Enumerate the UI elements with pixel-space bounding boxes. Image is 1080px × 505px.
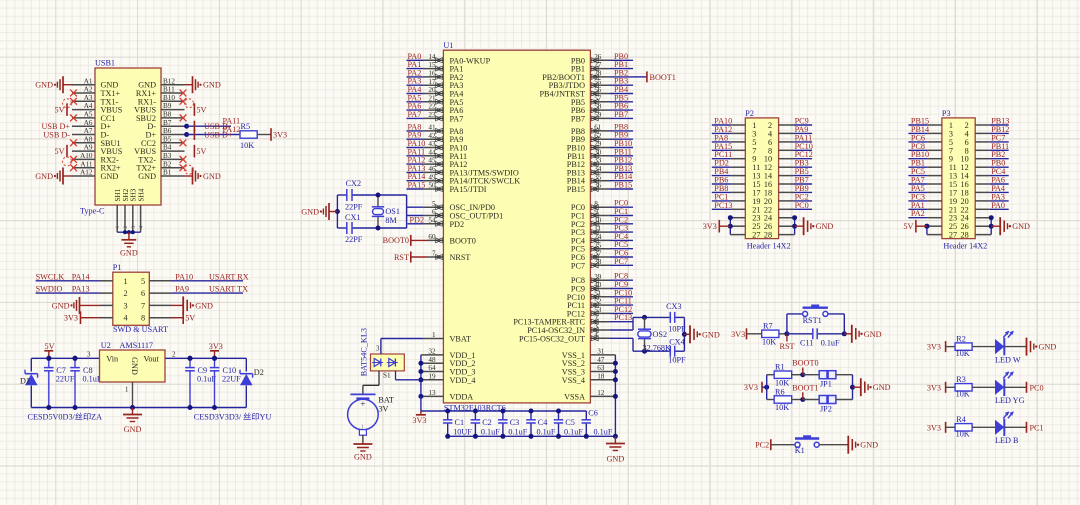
svg-text:GND: GND [138, 172, 156, 181]
svg-text:B11: B11 [163, 86, 175, 94]
svg-text:VDDA: VDDA [450, 392, 474, 401]
svg-text:PA12: PA12 [223, 125, 241, 134]
svg-text:A3: A3 [84, 94, 93, 102]
svg-text:R5: R5 [241, 122, 251, 131]
svg-text:RST: RST [780, 342, 795, 351]
svg-text:45: 45 [428, 157, 436, 165]
svg-text:61: 61 [594, 124, 602, 132]
svg-text:CESD5V0D3/丝印ZA: CESD5V0D3/丝印ZA [28, 412, 103, 422]
svg-text:A1: A1 [84, 77, 93, 85]
svg-text:SWDIO: SWDIO [36, 285, 63, 294]
svg-text:A10: A10 [80, 152, 93, 160]
svg-text:AMS1117: AMS1117 [120, 341, 154, 350]
svg-text:JP2: JP2 [820, 404, 832, 413]
svg-text:C2: C2 [482, 418, 492, 427]
svg-text:0.1uF: 0.1uF [197, 374, 216, 383]
svg-text:3: 3 [131, 226, 137, 229]
svg-text:R7: R7 [763, 322, 773, 331]
svg-text:4: 4 [594, 331, 598, 339]
svg-text:63: 63 [597, 364, 605, 372]
svg-text:B10: B10 [163, 94, 175, 102]
svg-text:R6: R6 [775, 387, 785, 396]
svg-text:0.1uF: 0.1uF [564, 427, 583, 436]
svg-text:3V3: 3V3 [731, 330, 745, 339]
svg-text:PD2: PD2 [450, 220, 465, 229]
svg-text:24: 24 [594, 233, 602, 241]
svg-text:0.1uF: 0.1uF [821, 338, 840, 347]
svg-text:46: 46 [428, 165, 436, 173]
svg-text:U2: U2 [101, 341, 111, 350]
svg-text:A12: A12 [80, 169, 93, 177]
svg-text:0.1uF: 0.1uF [508, 427, 527, 436]
svg-text:BOOT1: BOOT1 [650, 73, 676, 82]
svg-text:PC7: PC7 [614, 257, 628, 266]
svg-text:5V: 5V [903, 222, 913, 231]
svg-text:21: 21 [428, 94, 436, 102]
svg-text:10K: 10K [956, 430, 970, 439]
svg-text:BOOT0: BOOT0 [383, 236, 409, 245]
svg-text:10: 10 [594, 216, 602, 224]
svg-text:VBAT: VBAT [450, 335, 471, 344]
svg-text:C6: C6 [588, 409, 598, 418]
svg-text:USB1: USB1 [95, 59, 115, 68]
svg-text:USART TX: USART TX [209, 285, 248, 294]
svg-text:BOOT1: BOOT1 [792, 383, 818, 392]
svg-text:22UF: 22UF [56, 374, 75, 383]
svg-text:27: 27 [949, 231, 957, 240]
svg-text:32: 32 [428, 348, 436, 356]
svg-text:PA15: PA15 [408, 181, 426, 190]
svg-text:OS2: OS2 [653, 330, 668, 339]
svg-text:15: 15 [428, 61, 436, 69]
svg-text:GND: GND [864, 330, 882, 339]
svg-text:59: 59 [594, 111, 602, 119]
svg-text:28: 28 [764, 231, 772, 240]
svg-text:27: 27 [594, 61, 602, 69]
svg-text:56: 56 [594, 86, 602, 94]
svg-text:3V: 3V [378, 405, 388, 414]
svg-text:A4: A4 [84, 102, 93, 110]
svg-text:2: 2 [124, 289, 128, 298]
svg-text:39: 39 [594, 273, 602, 281]
svg-text:3V3: 3V3 [703, 222, 717, 231]
svg-text:2: 2 [123, 226, 129, 229]
svg-text:16: 16 [428, 70, 436, 78]
svg-text:PA13: PA13 [72, 285, 90, 294]
svg-text:8: 8 [594, 200, 598, 208]
svg-text:6: 6 [141, 289, 145, 298]
svg-text:GND: GND [124, 425, 142, 434]
svg-text:GND: GND [130, 357, 139, 375]
svg-text:A5: A5 [84, 111, 93, 119]
svg-text:49: 49 [428, 173, 436, 181]
svg-text:1: 1 [115, 226, 121, 229]
svg-text:JP1: JP1 [820, 380, 832, 389]
svg-text:GND: GND [816, 222, 834, 231]
svg-text:PC13: PC13 [714, 201, 732, 210]
svg-text:5V: 5V [196, 147, 206, 156]
svg-text:C11: C11 [800, 338, 813, 347]
svg-text:7: 7 [141, 301, 145, 310]
svg-text:53: 53 [594, 306, 602, 314]
svg-text:34: 34 [594, 165, 602, 173]
svg-text:Vin: Vin [106, 355, 118, 364]
svg-text:7: 7 [432, 250, 436, 258]
svg-text:R1: R1 [775, 363, 785, 372]
svg-text:32.768K: 32.768K [643, 344, 672, 353]
svg-text:22: 22 [428, 103, 436, 111]
svg-text:3V3: 3V3 [209, 342, 223, 351]
svg-text:5V: 5V [54, 147, 64, 156]
svg-text:62: 62 [594, 132, 602, 140]
svg-text:GND: GND [607, 455, 625, 464]
svg-text:1: 1 [125, 386, 129, 394]
svg-text:23: 23 [428, 111, 436, 119]
svg-text:PA15/JTDI: PA15/JTDI [450, 185, 487, 194]
svg-text:PB15: PB15 [567, 185, 585, 194]
svg-text:PC0: PC0 [1030, 383, 1044, 392]
svg-text:SWCLK: SWCLK [36, 272, 65, 281]
svg-text:U1: U1 [443, 41, 453, 50]
svg-text:2: 2 [172, 350, 176, 358]
svg-text:B7: B7 [163, 119, 172, 127]
svg-text:60: 60 [428, 233, 436, 241]
svg-text:GND: GND [35, 172, 53, 181]
svg-text:A6: A6 [84, 119, 93, 127]
svg-text:PC15-OSC32_OUT: PC15-OSC32_OUT [519, 334, 585, 343]
svg-text:SH1: SH1 [114, 188, 122, 201]
svg-text:GND: GND [1012, 222, 1030, 231]
svg-text:17: 17 [428, 78, 436, 86]
svg-text:A11: A11 [80, 160, 93, 168]
svg-text:P3: P3 [942, 109, 951, 118]
svg-text:37: 37 [594, 250, 602, 258]
svg-text:B2: B2 [163, 160, 172, 168]
svg-text:D1: D1 [20, 377, 30, 386]
svg-text:8M: 8M [385, 216, 397, 225]
svg-text:GND: GND [35, 81, 53, 90]
svg-text:22PF: 22PF [345, 235, 363, 244]
svg-text:D2: D2 [254, 368, 264, 377]
svg-text:GND: GND [873, 383, 891, 392]
svg-text:LED YG: LED YG [995, 396, 1025, 405]
svg-text:5V: 5V [45, 342, 55, 351]
svg-text:4: 4 [139, 226, 145, 229]
svg-text:SH3: SH3 [130, 188, 138, 201]
svg-text:1: 1 [432, 331, 436, 339]
svg-text:35: 35 [594, 173, 602, 181]
svg-text:25: 25 [594, 241, 602, 249]
svg-text:20: 20 [428, 86, 436, 94]
svg-text:28: 28 [594, 70, 602, 78]
svg-text:3: 3 [594, 323, 598, 331]
svg-text:0.1uF: 0.1uF [537, 427, 556, 436]
svg-text:5V: 5V [54, 106, 64, 115]
svg-text:PB15: PB15 [614, 181, 632, 190]
svg-text:SWD & USART: SWD & USART [113, 325, 168, 334]
svg-text:PC0: PC0 [795, 201, 809, 210]
svg-text:PC1: PC1 [1030, 423, 1044, 432]
svg-text:51: 51 [594, 289, 602, 297]
svg-text:29: 29 [594, 140, 602, 148]
svg-text:3V3: 3V3 [927, 343, 941, 352]
svg-text:VSS_4: VSS_4 [562, 376, 585, 385]
svg-text:3V3: 3V3 [64, 314, 78, 323]
svg-text:GND: GND [203, 172, 221, 181]
svg-text:SH2: SH2 [122, 188, 130, 201]
svg-text:GND: GND [354, 453, 372, 462]
svg-text:B5: B5 [163, 135, 172, 143]
svg-text:3V3: 3V3 [744, 383, 758, 392]
svg-text:19: 19 [428, 372, 436, 380]
svg-text:58: 58 [594, 103, 602, 111]
svg-text:36: 36 [594, 182, 602, 190]
svg-text:R2: R2 [956, 334, 966, 343]
svg-text:R4: R4 [956, 415, 966, 424]
svg-text:12: 12 [597, 389, 605, 397]
svg-text:CESD3V3D3/ 丝印YU: CESD3V3D3/ 丝印YU [194, 412, 272, 422]
svg-text:Type-C: Type-C [80, 207, 105, 216]
svg-text:CX2: CX2 [346, 179, 361, 188]
svg-text:27: 27 [752, 231, 760, 240]
svg-text:18: 18 [597, 372, 605, 380]
svg-text:GND: GND [702, 330, 720, 339]
svg-text:A8: A8 [84, 135, 93, 143]
svg-text:48: 48 [428, 356, 436, 364]
svg-text:44: 44 [428, 148, 436, 156]
svg-text:RST: RST [394, 253, 409, 262]
svg-text:CX4: CX4 [669, 338, 684, 347]
svg-text:C1: C1 [455, 418, 465, 427]
svg-text:GND: GND [203, 81, 221, 90]
svg-text:33: 33 [594, 157, 602, 165]
svg-text:26: 26 [594, 53, 602, 61]
svg-text:GND: GND [52, 301, 70, 310]
svg-text:5V: 5V [196, 106, 206, 115]
svg-text:47: 47 [597, 356, 605, 364]
svg-text:GND: GND [120, 248, 138, 257]
svg-text:31: 31 [597, 348, 605, 356]
svg-text:BOOT0: BOOT0 [450, 236, 476, 245]
svg-text:A7: A7 [84, 127, 93, 135]
svg-text:B3: B3 [163, 152, 172, 160]
svg-text:GND: GND [860, 441, 878, 450]
svg-text:0.1uF: 0.1uF [481, 427, 500, 436]
svg-text:10UF: 10UF [453, 427, 472, 436]
svg-text:B1: B1 [163, 169, 172, 177]
svg-text:28: 28 [961, 231, 969, 240]
svg-text:GND: GND [1039, 343, 1057, 352]
svg-text:Header 14X2: Header 14X2 [943, 242, 987, 251]
svg-text:22UF: 22UF [222, 374, 241, 383]
svg-text:PB7: PB7 [571, 114, 585, 123]
svg-text:OS1: OS1 [385, 207, 400, 216]
svg-text:3V3: 3V3 [412, 416, 426, 425]
svg-text:13: 13 [428, 389, 436, 397]
svg-text:PB7: PB7 [614, 110, 628, 119]
svg-text:10K: 10K [240, 141, 254, 150]
svg-text:PA9: PA9 [175, 285, 189, 294]
svg-text:10K: 10K [775, 403, 789, 412]
svg-text:42: 42 [428, 132, 436, 140]
svg-text:30: 30 [594, 148, 602, 156]
svg-text:B6: B6 [163, 127, 172, 135]
svg-text:6: 6 [432, 208, 436, 216]
svg-text:VDD_4: VDD_4 [450, 376, 476, 385]
svg-text:57: 57 [594, 94, 602, 102]
svg-text:10K: 10K [956, 390, 970, 399]
svg-text:PA7: PA7 [408, 110, 422, 119]
svg-text:10K: 10K [956, 349, 970, 358]
svg-text:3: 3 [124, 301, 128, 310]
svg-text:A9: A9 [84, 144, 93, 152]
svg-text:+: + [360, 399, 365, 409]
svg-text:B9: B9 [163, 102, 172, 110]
svg-text:CX3: CX3 [666, 302, 681, 311]
svg-text:B12: B12 [163, 77, 175, 85]
svg-text:A2: A2 [84, 86, 93, 94]
svg-text:BAT54C_KL3: BAT54C_KL3 [360, 328, 369, 376]
svg-text:LED W: LED W [995, 356, 1021, 365]
svg-text:50: 50 [428, 182, 436, 190]
svg-text:55: 55 [594, 78, 602, 86]
svg-text:38: 38 [594, 258, 602, 266]
svg-text:P1: P1 [113, 263, 122, 272]
svg-text:PC13: PC13 [614, 313, 632, 322]
svg-text:NRST: NRST [450, 253, 471, 262]
svg-text:3: 3 [376, 345, 380, 353]
svg-text:64: 64 [428, 364, 436, 372]
svg-text:0.1uF: 0.1uF [594, 427, 613, 436]
svg-text:9: 9 [594, 208, 598, 216]
svg-text:PA7: PA7 [450, 114, 464, 123]
svg-text:52: 52 [594, 298, 602, 306]
svg-text:CX1: CX1 [345, 213, 360, 222]
svg-text:5: 5 [432, 200, 436, 208]
svg-text:40: 40 [594, 281, 602, 289]
svg-text:P2: P2 [745, 109, 754, 118]
svg-text:8: 8 [141, 314, 145, 323]
svg-text:GND: GND [101, 172, 119, 181]
svg-text:3V3: 3V3 [273, 131, 287, 140]
svg-text:3V3: 3V3 [927, 423, 941, 432]
svg-text:22PF: 22PF [345, 203, 363, 212]
svg-text:B4: B4 [163, 144, 172, 152]
svg-text:LED B: LED B [995, 436, 1019, 445]
svg-text:R3: R3 [956, 375, 966, 384]
svg-text:C3: C3 [510, 418, 520, 427]
svg-text:43: 43 [428, 140, 436, 148]
svg-text:VSSA: VSSA [564, 392, 585, 401]
svg-text:PA14: PA14 [72, 272, 90, 281]
svg-text:5: 5 [141, 277, 145, 286]
svg-text:Header 14X2: Header 14X2 [747, 242, 791, 251]
svg-text:K1: K1 [795, 446, 805, 455]
svg-text:USART RX: USART RX [209, 272, 249, 281]
svg-text:PA2: PA2 [911, 209, 925, 218]
svg-text:PC7: PC7 [571, 261, 585, 270]
svg-text:1: 1 [124, 277, 128, 286]
svg-text:14: 14 [428, 53, 436, 61]
svg-text:BAT: BAT [378, 396, 393, 405]
svg-text:RST1: RST1 [803, 316, 822, 325]
svg-text:4: 4 [124, 314, 128, 323]
svg-text:USB D-: USB D- [43, 131, 70, 140]
svg-text:B8: B8 [163, 111, 172, 119]
svg-text:10PF: 10PF [668, 356, 686, 365]
svg-text:PD2: PD2 [410, 215, 425, 224]
svg-text:PC2: PC2 [755, 441, 769, 450]
svg-text:54: 54 [428, 216, 436, 224]
svg-text:10K: 10K [762, 337, 776, 346]
svg-text:5V: 5V [185, 314, 195, 323]
svg-text:3: 3 [87, 350, 91, 358]
svg-text:BOOT0: BOOT0 [792, 359, 818, 368]
svg-text:2: 2 [594, 314, 598, 322]
svg-text:10K: 10K [775, 378, 789, 387]
svg-text:Vout: Vout [143, 355, 159, 364]
svg-text:PA0: PA0 [991, 201, 1005, 210]
svg-text:SH4: SH4 [137, 188, 145, 201]
svg-text:C5: C5 [565, 418, 575, 427]
svg-text:11: 11 [594, 225, 601, 233]
svg-text:C4: C4 [538, 418, 548, 427]
svg-text:GND: GND [195, 301, 213, 310]
svg-text:PA10: PA10 [175, 272, 193, 281]
svg-text:S1: S1 [383, 372, 391, 380]
svg-text:41: 41 [428, 124, 436, 132]
svg-text:GND: GND [301, 208, 319, 217]
svg-text:3V3: 3V3 [927, 383, 941, 392]
